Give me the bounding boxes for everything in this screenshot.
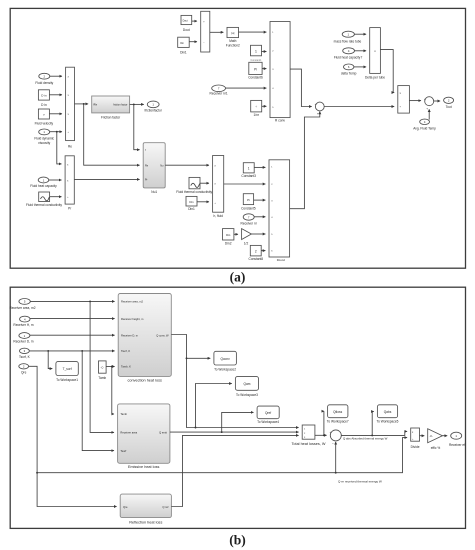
input oval Receiver D m [13,333,34,344]
svg-text:effic %: effic % [431,446,441,450]
wire Qre long bottom to Divide [37,438,407,473]
wire Friction Factor to frictionfactor oval [130,103,144,105]
wire friction factor branch down to Nu1 [134,104,140,149]
wire Fluid heat capacity to Pr mux [49,179,62,181]
svg-text:Tsurf, K: Tsurf, K [121,349,130,353]
block Divide2 [411,428,420,449]
svg-text:+: + [426,106,428,110]
block Din [178,37,190,54]
constant Constant5 [241,194,256,211]
input oval Receiver nr [241,214,258,226]
svg-text:Divide: Divide [411,445,420,449]
svg-text:Receiver D, m: Receiver D, m [121,333,139,337]
input oval Fluid dynamic viscosity [34,129,54,145]
wire Fluid thermal conductivity 1 to h fluid mux [200,182,209,184]
panel (a) frame [10,8,465,268]
svg-text:Constant3: Constant3 [241,174,256,178]
constant Tamb [98,361,106,380]
wire Fluid thermal conductivity to Pr mux [50,196,62,198]
wire Receiver area branch to Emittance [90,301,114,432]
block Qtloss To Workspace7 [327,405,349,424]
svg-text:Receiver nr: Receiver nr [241,222,258,226]
wire Din2 to Gain [234,233,238,235]
svg-text:Q re received thermal energy W: Q re received thermal energy W [338,480,382,484]
wire Pr output to Nu1 [74,178,139,180]
svg-text:Pr: Pr [145,178,148,181]
wire R conv output to Sum1 [290,69,312,106]
input oval Fluid heat capacity [30,177,57,188]
wire bottom branch to SumB [335,442,337,473]
mux Delta per tube [365,28,385,80]
wire SumB to Divide2 [341,431,407,435]
input oval Receiver area m2 [9,299,35,311]
wire v to Re mux [49,113,62,115]
wire Reflection output to Total heat losses [171,435,298,506]
svg-text:(b): (b) [229,533,246,548]
block Din1 [186,196,197,211]
svg-text:Dout: Dout [183,28,190,32]
gain 1/2 [242,229,252,246]
block Total heat losses [292,425,326,446]
wire Gain to Rcond [251,233,265,235]
svg-text:Receiver area, m2: Receiver area, m2 [121,300,143,304]
wire Divide2 to gain [420,435,425,437]
gain effic [428,429,443,450]
svg-text:Total heat losses, W: Total heat losses, W [292,442,326,446]
svg-text:Qre: Qre [21,370,27,374]
svg-text:Tsurf: Tsurf [120,449,126,453]
svg-text:Constant1: Constant1 [251,59,263,62]
block D in [38,90,49,107]
svg-text:Din: Din [226,233,231,237]
input oval Qre [19,364,29,375]
svg-text:Rcond: Rcond [277,258,286,262]
wire Fluid density to Re mux [50,75,62,77]
input oval mass flow rate tube [334,31,362,43]
svg-text:Fluid density: Fluid density [35,81,53,85]
wire Tamb to convection block [106,366,115,368]
wire Constant8 to Rcond [261,250,265,252]
wire Receiver nr to Rcond [254,216,265,218]
junction Tamb branch [111,366,113,368]
svg-text:Fluid thermal conductivity: Fluid thermal conductivity [26,203,62,207]
input oval Receiver nr1 [210,85,228,95]
block Divide [398,86,410,114]
svg-text:+: + [315,102,317,106]
svg-text:Function2: Function2 [226,43,240,47]
svg-text:Din1: Din1 [180,51,187,55]
svg-text:convection heat loss: convection heat loss [127,379,162,383]
junction Qtloss branch [323,434,325,436]
svg-text:Qref: Qref [265,411,271,415]
block Fluid velocity v [35,109,54,125]
svg-text:1: 1 [255,49,257,53]
wire Re branch down to Nu1 [84,104,140,165]
svg-text:Qam: Qam [244,382,251,386]
panel (b) frame [10,287,465,528]
svg-text:Q conv, W: Q conv, W [156,333,169,337]
svg-text:To Workspace7: To Workspace7 [327,420,349,424]
mux h fluid [213,156,224,219]
svg-text:Nu1: Nu1 [151,190,157,194]
wire Q emit to Total heat losses [170,431,299,433]
block Qam To Workspace3 [235,377,258,398]
wire D in to Re mux [49,94,62,96]
wire viscosity branch to Pr mux [57,132,62,164]
wire Receiver D to convection block [30,334,115,336]
svg-text:Receiver D, m: Receiver D, m [13,339,34,343]
subsystem Friction Factor [92,96,130,120]
wire Nu1 to h fluid mux [165,164,209,166]
input oval delta Temp [341,64,357,75]
svg-text:Receiver area: Receiver area [120,431,137,435]
block Fluid thermal conductivity 1 [176,177,215,193]
svg-text:To Workspace3: To Workspace3 [236,393,258,397]
svg-text:Din2: Din2 [225,241,232,245]
wire Receiver H to convection block [30,318,115,320]
junction Qabs branch [371,434,373,436]
wire Delta per tube to Divide [380,50,394,93]
svg-text:Receiver nr1: Receiver nr1 [210,91,228,95]
svg-text:Fluid velocity: Fluid velocity [35,121,54,125]
wire Tsurf branch to Emittance [82,351,114,451]
wire branch to Qam workspace [196,384,232,428]
input oval Avg. Fluid Temp [413,119,436,130]
svg-text:1/2: 1/2 [244,241,249,245]
svg-text:+: + [424,97,426,101]
svg-text:To Workspace5: To Workspace5 [377,420,399,424]
wire delta Temp to Delta per tube [354,66,366,68]
input oval Fluid heat capacity f [334,48,362,60]
input oval Receiver H m [13,316,34,327]
svg-text:Constant5: Constant5 [241,206,256,210]
subsystem Reflection heat loss [120,494,171,524]
wire Math Function2 to R conv [239,31,267,33]
svg-text:h, fluid: h, fluid [213,214,223,218]
block Qref To Workspace4 [257,406,279,424]
sum Sum1 [315,102,325,115]
svg-text:Emissive heat loss: Emissive heat loss [128,465,160,469]
wire Constant3 to Rcond [254,166,265,168]
junction Tsurf to workspace branch [47,350,49,352]
block Qabs To Workspace5 [377,405,399,424]
svg-text:fRe: fRe [93,104,98,107]
block Dout [181,15,192,32]
svg-text:Qconv: Qconv [220,357,230,361]
svg-text:+: + [317,111,319,115]
svg-text:-C-: -C- [100,365,104,369]
wire convection output down [171,335,298,428]
wire Rcond output to Sum1 [290,112,320,209]
wire branch to Qtloss workspace [323,411,325,435]
svg-text:+: + [330,431,332,435]
constant Constant8 [249,245,264,261]
subsystem Emittance heat loss [118,404,170,469]
svg-text:Fluid dynamic: Fluid dynamic [34,136,54,140]
constant Pi Constant6 [248,62,263,79]
junction Qconv branch [186,357,188,359]
sum SumB [330,430,342,446]
junction Qam branch [195,427,197,429]
output oval Tout [444,97,454,109]
block T_surf To Workspace1 [56,362,78,383]
svg-text:To Workspace4: To Workspace4 [257,420,279,424]
svg-text:Q emit: Q emit [159,431,167,435]
svg-text:Reflection heat loss: Reflection heat loss [129,520,162,524]
svg-text:Pi: Pi [247,198,250,202]
svg-text:(a): (a) [230,270,246,285]
wire mux to Math Function2 [210,31,224,33]
svg-text:|u|: |u| [231,31,234,35]
svg-text:1: 1 [248,167,250,171]
subsystem Nu1 [143,143,165,194]
wire Total heat losses to SumB [315,434,327,436]
svg-text:D in: D in [41,103,47,107]
junction friction factor branch [133,103,135,105]
mux Re [66,67,75,148]
svg-text:÷: ÷ [255,105,257,109]
wire Divide to Sum2 [409,100,421,102]
constant Constant3 [241,163,256,178]
svg-text:delta Temp: delta Temp [341,71,357,75]
sum Sum2 [424,97,434,111]
wire Qre down to Reflection [29,366,117,506]
svg-text:Q abs Absorbed thermal energy: Q abs Absorbed thermal energy W [343,437,388,441]
block Fluid thermal conductivity [26,192,62,207]
wire Avg. Fluid Temp to Sum2 [428,109,430,119]
svg-text:To Workspace1: To Workspace1 [56,378,78,382]
wire Fluid dynamic viscosity to Re mux [50,131,62,133]
junction Re branch [83,103,85,105]
subsystem Rcond [269,160,290,262]
input oval Fluid density [35,73,53,85]
junction viscosity branch [56,131,58,133]
block Math Function2 [226,27,240,47]
svg-text:Fluid heat capacity f: Fluid heat capacity f [334,56,362,60]
block Din2 [223,229,234,246]
svg-text:Tsurf, K: Tsurf, K [19,355,31,359]
svg-text:Din: Din [189,200,194,204]
svg-text:Tamb, K: Tamb, K [121,365,131,369]
wire Dout to mux [192,20,197,22]
svg-text:Constant6: Constant6 [248,75,263,79]
junction Receiver area branch [89,300,91,302]
output oval frictionfactor [145,101,163,112]
svg-text:T_surf: T_surf [63,367,72,371]
svg-text:Receiver area, m2: Receiver area, m2 [9,306,35,310]
block Math Function1 [251,100,262,116]
wire branch to Qabs workspace [372,412,374,436]
svg-text:Delta per tube: Delta per tube [365,75,385,79]
junction Tsurf emittance branch [81,350,83,352]
wire constant1 to R conv [262,51,267,53]
svg-text:Avg. Fluid Temp: Avg. Fluid Temp [413,126,436,130]
junction bottom wire to SumB [335,472,337,474]
svg-text:Qtloss: Qtloss [333,410,342,414]
wire Receiver area to convection block [30,300,114,302]
wire Tsurf branch to T_surf workspace [48,351,52,369]
output oval Receiver eff [449,432,465,447]
svg-text:Receiver ef: Receiver ef [449,443,465,447]
wire Re output to Friction Factor [75,103,89,105]
svg-text:Qabs: Qabs [384,410,392,414]
wire Din1 to h fluid mux [197,201,209,203]
wire Constant6 to R conv [262,68,266,70]
svg-text:Qre: Qre [123,505,128,509]
svg-text:R conv: R conv [275,118,285,122]
svg-text:viscosity: viscosity [38,141,50,145]
mux Pr [65,156,74,211]
svg-text:Re: Re [68,144,72,148]
wire mass flow rate to Delta per tube [354,33,366,35]
subsystem convection heat loss [118,294,171,383]
svg-text:Receiver H, m: Receiver H, m [13,323,34,327]
wire Constant5 to Rcond [254,199,266,201]
svg-text:Tamb: Tamb [98,376,106,380]
wire Math Function1 to R conv [262,105,267,107]
wire Din to mux [189,41,197,43]
wire Sum1 to Divide [324,106,394,108]
svg-text:−: − [332,442,334,446]
svg-text:Constant8: Constant8 [249,257,264,261]
wire h fluid to Rcond mux [224,183,266,185]
svg-text:2: 2 [255,249,257,253]
wire Receiver nr1 to R conv [226,87,267,89]
svg-text:mass flow rate tube: mass flow rate tube [334,39,362,43]
constant 1 [251,45,263,62]
mux Subtract top [201,11,210,52]
svg-text:Tamb: Tamb [120,412,127,416]
wire Sum2 to Tout [434,100,440,102]
wire Tamb branch to Emittance [112,367,114,415]
subsystem R conv [270,22,290,123]
wire gain to Receiver eff [442,435,447,437]
svg-text:To Workspace2: To Workspace2 [214,368,236,372]
wire branch to Qconv workspace [187,357,211,359]
wire Fluid heat capacity f to Delta per tube [355,50,367,52]
wire Tsurf to convection block [29,350,114,352]
input oval Tsurf K [19,348,31,359]
wire branch to Qref workspace [222,412,254,432]
junction Qref branch [221,431,223,433]
svg-text:Receiver height, m: Receiver height, m [121,317,144,321]
svg-text:friction factor: friction factor [113,104,127,107]
svg-text:Q ref: Q ref [162,505,168,509]
junction Qre long wire [36,472,38,474]
svg-text:Fluid heat capacity: Fluid heat capacity [30,184,57,188]
svg-text:Friction factor: Friction factor [101,116,121,120]
svg-text:D in: D in [41,94,47,98]
svg-text:Fluid thermal conductivity 1: Fluid thermal conductivity 1 [176,190,215,194]
svg-text:Pi: Pi [254,67,257,71]
block Qconv To Workspace2 [214,351,237,371]
svg-text:Din1: Din1 [188,207,195,211]
svg-text:frictionfactor: frictionfactor [145,109,163,113]
svg-text:Dout: Dout [183,20,188,23]
svg-text:Tout: Tout [446,105,452,109]
svg-text:1/nr: 1/nr [253,113,259,117]
svg-text:-K-: -K- [430,434,434,438]
